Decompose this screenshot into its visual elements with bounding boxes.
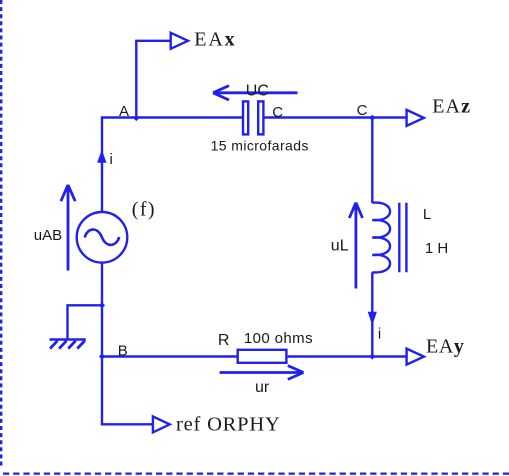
svg-text:R: R: [218, 332, 230, 349]
inductor L1 coil: [372, 203, 390, 273]
output terminal EAx triangle: [171, 33, 188, 50]
resistor R1 body: [238, 350, 287, 363]
capacitor C1 right plate: [258, 101, 263, 134]
capacitor C1 left plate: [243, 101, 248, 134]
current arrow i (right branch, pointing down): [368, 312, 376, 324]
voltage arrow uL (pointing up): [349, 203, 362, 289]
wire top: corner to capacitor left plate: [102, 118, 243, 213]
svg-text:EAx: EAx: [194, 29, 236, 51]
svg-text:ur: ur: [255, 379, 270, 396]
svg-text:C: C: [272, 104, 283, 121]
ground hatch 2: [59, 341, 67, 349]
svg-text:A: A: [119, 103, 129, 120]
svg-text:uL: uL: [331, 238, 349, 255]
left dashed page border: [0, 0, 2, 468]
AC source U1 circle: [77, 212, 128, 263]
current arrow i (left branch, pointing up): [98, 151, 106, 162]
svg-text:L: L: [423, 206, 431, 223]
node B dot: [99, 353, 105, 359]
wire inductor bottom to node EAy junction: [371, 272, 373, 356]
svg-text:1 H: 1 H: [425, 240, 448, 257]
ground symbol bar: [50, 338, 86, 341]
output terminal EAz triangle: [407, 110, 424, 127]
ground hatch 4: [77, 341, 85, 349]
inductor core line 1: [398, 203, 400, 273]
inductor core line 2: [405, 203, 407, 273]
voltage arrow uC (pointing left): [213, 86, 298, 100]
svg-text:ref ORPHY: ref ORPHY: [176, 414, 281, 436]
svg-text:UC: UC: [246, 83, 269, 100]
voltage arrow uAB (pointing up): [61, 185, 75, 271]
wire EAx lead (node A up and right): [136, 41, 170, 118]
svg-text:EAz: EAz: [432, 96, 471, 118]
voltage arrow ur (pointing right): [220, 366, 304, 380]
node EAy junction dot: [369, 353, 375, 359]
svg-text:100 ohms: 100 ohms: [244, 330, 313, 347]
svg-text:i: i: [378, 326, 381, 343]
wire B to resistor: [102, 355, 237, 357]
ground hatch 1: [50, 341, 58, 349]
output terminal EAy triangle: [407, 348, 424, 365]
wire resistor to node EAy junction: [288, 355, 407, 357]
wire source bottom down through ground junction and B: [102, 263, 153, 425]
output terminal ref ORPHY triangle: [153, 416, 170, 433]
ground junction dot: [99, 302, 105, 308]
bottom dashed page border: [3, 473, 509, 475]
ground branch wire: [68, 305, 103, 338]
svg-text:i: i: [110, 151, 113, 168]
node A dot: [133, 115, 139, 121]
AC source sine wave: [85, 230, 120, 245]
svg-text:(f): (f): [132, 199, 156, 221]
svg-text:C: C: [357, 102, 368, 119]
node C dot: [369, 115, 375, 121]
wire node C down to inductor: [371, 118, 373, 203]
svg-text:15 microfarads: 15 microfarads: [211, 138, 309, 154]
ground hatch 3: [68, 341, 76, 349]
svg-text:EAy: EAy: [426, 335, 464, 357]
wire capacitor right plate to node C and EAz lead: [264, 116, 407, 118]
svg-text:uAB: uAB: [34, 227, 62, 244]
